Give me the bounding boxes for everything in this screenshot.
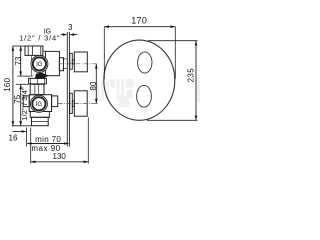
lower hole xyxy=(137,85,152,107)
arrow 16 xyxy=(22,130,27,133)
upper valve circle xyxy=(31,55,48,72)
side view: upper flange xyxy=(70,53,73,69)
front view: neck to housing xyxy=(30,84,44,94)
dimension arrows left figure xyxy=(12,46,98,163)
dim line 75 xyxy=(20,84,22,126)
svg-text:3: 3 xyxy=(68,23,73,32)
arrows right figure xyxy=(104,25,197,120)
arrow 80 bottom xyxy=(95,99,98,104)
svg-text:min 70: min 70 xyxy=(35,135,61,144)
svg-text:IG: IG xyxy=(36,62,43,68)
arrow 75 top xyxy=(19,84,22,89)
hex nut facet lines xyxy=(30,78,32,84)
svg-text:80: 80 xyxy=(89,81,98,90)
front view: left port xyxy=(23,96,29,107)
arrow 73 bottom xyxy=(19,71,22,76)
arrow 170 left xyxy=(104,25,109,28)
svg-text:1/2" / 3/4": 1/2" / 3/4" xyxy=(20,87,29,121)
dim line 160 xyxy=(12,46,14,126)
dim line 73 xyxy=(20,46,22,76)
wall plate line front xyxy=(66,32,68,147)
svg-text:1/2" / 3/4": 1/2" / 3/4" xyxy=(19,34,60,43)
arrow min/max left xyxy=(27,142,32,145)
arrow 80 top xyxy=(95,64,98,69)
arrow 75 bottom xyxy=(19,121,22,126)
arrow 170 right xyxy=(171,25,176,28)
upper hole xyxy=(138,52,152,73)
front view: bottom pipe xyxy=(32,117,49,125)
svg-text:235: 235 xyxy=(186,68,195,83)
extension 170 right xyxy=(174,27,176,79)
arrow 235 bottom xyxy=(195,116,198,121)
neck inner pipe lines xyxy=(34,84,36,94)
extension 170 left xyxy=(103,27,105,79)
dim line 235 xyxy=(195,41,197,121)
front view: lower housing xyxy=(29,95,51,112)
dim line 130 xyxy=(31,161,89,163)
svg-text:16: 16 xyxy=(9,133,18,142)
extension line 130 left xyxy=(30,128,32,164)
dim 3 leader lines xyxy=(61,34,78,36)
wall plate line back xyxy=(68,32,70,147)
extension line 130 right xyxy=(87,117,89,163)
dim line 16 xyxy=(13,131,26,133)
centerline lower xyxy=(58,103,98,105)
dim line 80 xyxy=(95,64,97,104)
svg-text:IG: IG xyxy=(36,102,43,108)
arrow 235 top xyxy=(195,41,198,46)
dim line 170 xyxy=(104,26,175,28)
oval cover plate xyxy=(104,40,175,120)
front view: top pipe xyxy=(25,46,43,55)
front view: bottom nut xyxy=(30,112,49,118)
arrow min/max right xyxy=(64,142,69,145)
svg-text:170: 170 xyxy=(131,15,147,25)
arrow 160 bottom xyxy=(12,121,15,126)
side view: lower knob xyxy=(74,91,87,116)
front view: outlet nipple xyxy=(59,58,63,71)
nipple thread tick lower xyxy=(63,68,67,70)
extension line upper-mid (y=76.1) xyxy=(18,75,33,77)
dim line min/max xyxy=(27,143,68,145)
extension line mid (y=84.3) xyxy=(16,83,29,85)
watermark block a xyxy=(96,74,200,107)
front view: outlet box xyxy=(45,51,59,75)
svg-text:73: 73 xyxy=(14,56,23,65)
svg-text:160: 160 xyxy=(3,77,12,91)
nipple thread tick upper xyxy=(63,58,67,60)
arrow 73 top xyxy=(19,46,22,51)
arrow 130 right xyxy=(84,161,89,164)
top pipe step lines xyxy=(27,46,29,55)
extension line top (y=46) xyxy=(12,45,26,47)
side view: upper knob xyxy=(74,52,87,72)
front view: diverter lever (dark) xyxy=(35,73,49,79)
shoulder to outlet box xyxy=(43,50,46,52)
side view: upper stem xyxy=(72,60,74,64)
front view: hex nut band xyxy=(29,78,47,84)
extension line bottom (y=125.8) xyxy=(12,125,32,127)
front view: right port xyxy=(52,96,58,107)
lower valve circle xyxy=(30,95,47,112)
svg-text:130: 130 xyxy=(53,152,67,161)
arrow 160 top xyxy=(12,46,15,51)
arrow 130 left xyxy=(31,161,36,164)
bottom pipe inner line xyxy=(32,120,49,122)
front view: upper body side line xyxy=(31,55,33,76)
side view: lower flange xyxy=(70,93,73,113)
extension line x=26.5 xyxy=(26,128,28,147)
side view: lower stem xyxy=(72,101,74,107)
extension 235 bottom xyxy=(147,119,198,121)
dim 3 arrows xyxy=(63,33,75,36)
centerline upper xyxy=(59,63,98,65)
extension 235 top xyxy=(148,40,198,42)
